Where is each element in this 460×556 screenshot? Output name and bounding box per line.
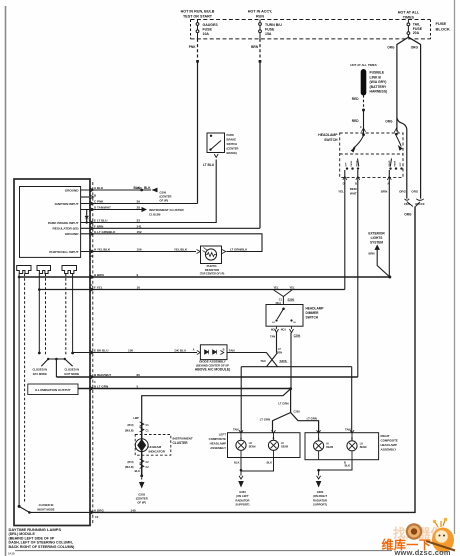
svg-text:INDICATOR: INDICATOR [149, 450, 166, 454]
svg-text:DAYTIME RUNNING LAMPS: DAYTIME RUNNING LAMPS [9, 527, 62, 532]
svg-text:BRACK: BRACK [415, 202, 424, 206]
svg-text:ILLUMINATION OUTPUT: ILLUMINATION OUTPUT [35, 388, 71, 392]
svg-text:TAN: TAN [233, 428, 239, 432]
svg-text:LT GRN/BLK: LT GRN/BLK [230, 248, 248, 252]
svg-text:LMP: LMP [133, 416, 139, 420]
svg-text:TAN: TAN [260, 359, 265, 363]
svg-text:BRAKE): BRAKE) [227, 151, 238, 155]
svg-text:RIGHT: RIGHT [381, 434, 390, 438]
svg-text:G200: G200 [160, 191, 167, 195]
svg-text:A BLK: A BLK [94, 186, 104, 190]
svg-text:HOT AT ALL TIMES: HOT AT ALL TIMES [350, 63, 376, 67]
svg-text:LT GRN: LT GRN [307, 417, 317, 421]
svg-text:ORG: ORG [385, 119, 393, 123]
svg-text:5: 5 [137, 385, 139, 389]
svg-text:B: B [355, 182, 357, 186]
svg-text:IGNITION INPUT: IGNITION INPUT [55, 202, 79, 206]
svg-text:BLK: BLK [345, 464, 350, 468]
svg-text:156: 156 [137, 248, 142, 252]
svg-text:INSTRUMENT: INSTRUMENT [173, 437, 193, 441]
svg-text:G LT GRN/BLK: G LT GRN/BLK [94, 230, 116, 234]
svg-text:PNK: PNK [189, 45, 196, 49]
svg-text:BLK: BLK [135, 469, 140, 473]
svg-text:C303: C303 [294, 410, 301, 414]
svg-text:G203: G203 [138, 493, 145, 497]
svg-text:TAN: TAN [345, 428, 351, 432]
svg-text:ASSEMBLY: ASSEMBLY [210, 446, 226, 450]
svg-text:CLOSED IN: CLOSED IN [32, 368, 47, 372]
svg-text:80: 80 [137, 373, 141, 377]
svg-text:TURN B/U: TURN B/U [265, 23, 282, 27]
svg-text:GRN: GRN [276, 350, 282, 354]
svg-text:GROUND: GROUND [65, 188, 80, 192]
svg-text:EXIT MODE: EXIT MODE [64, 372, 79, 376]
svg-text:C209: C209 [294, 333, 301, 337]
svg-text:C: C [360, 126, 362, 129]
svg-text:SUPPORT): SUPPORT) [313, 503, 327, 507]
svg-text:B LT GRN: B LT GRN [94, 385, 108, 389]
svg-text:REGULATOR (I/S): REGULATOR (I/S) [52, 227, 78, 231]
svg-text:RUN: RUN [256, 15, 264, 19]
svg-text:C2: C2 [146, 461, 150, 464]
svg-text:FUSE: FUSE [436, 21, 447, 26]
svg-text:BLK: BLK [234, 461, 239, 465]
svg-text:A: A [193, 348, 195, 351]
svg-text:BLOCK: BLOCK [436, 26, 450, 31]
svg-text:ORG: ORG [411, 46, 419, 50]
svg-text:G383: G383 [317, 490, 324, 494]
svg-text:(CENTER: (CENTER [136, 497, 148, 501]
svg-text:BEAM: BEAM [326, 446, 333, 449]
svg-text:EXTERIOR: EXTERIOR [368, 232, 385, 236]
svg-text:ORG: ORG [387, 46, 395, 50]
svg-text:SYSTEM: SYSTEM [370, 240, 383, 244]
svg-text:RADIATOR: RADIATOR [313, 498, 327, 502]
svg-text:GAUGES: GAUGES [203, 23, 219, 27]
svg-text:OFF: OFF [346, 162, 348, 167]
svg-text:6B: 6B [90, 254, 93, 258]
svg-text:SWITCH: SWITCH [324, 138, 338, 142]
svg-text:RADIATOR: RADIATOR [236, 498, 250, 502]
svg-text:HI: HI [281, 443, 284, 445]
svg-text:28: 28 [137, 206, 141, 210]
svg-text:G363: G363 [239, 490, 246, 494]
svg-text:B: B [223, 348, 225, 351]
svg-text:33: 33 [137, 219, 141, 223]
svg-text:(ON LEFT: (ON LEFT [236, 494, 249, 498]
svg-text:ABOVE A/C MODULE): ABOVE A/C MODULE) [195, 368, 230, 372]
svg-text:HEADLAMP: HEADLAMP [381, 443, 397, 447]
svg-text:B: B [273, 437, 275, 440]
svg-text:DIMMER: DIMMER [306, 311, 320, 315]
svg-text:LT GRN: LT GRN [278, 402, 288, 406]
svg-text:(TOP CENTER OF I/P): (TOP CENTER OF I/P) [200, 273, 225, 276]
svg-text:C1: C1 [146, 430, 150, 433]
svg-text:C1: C1 [146, 424, 150, 427]
svg-text:CLOSED IN: CLOSED IN [39, 503, 54, 507]
svg-text:GROUND: GROUND [65, 232, 80, 236]
svg-text:(B/U): (B/U) [128, 424, 134, 427]
svg-text:C620: C620 [404, 202, 411, 206]
svg-text:LO: LO [360, 444, 363, 446]
svg-text:LO: LO [249, 443, 252, 445]
svg-text:A: A [387, 182, 389, 186]
svg-text:H BRN: H BRN [94, 273, 104, 277]
svg-text:241: 241 [137, 224, 142, 228]
svg-text:(BATTERY: (BATTERY [370, 85, 388, 89]
svg-text:B: B [351, 438, 353, 441]
svg-text:RED: RED [352, 97, 359, 101]
svg-text:(ON RIGHT: (ON RIGHT [313, 494, 327, 498]
svg-text:HEADLAMP: HEADLAMP [210, 442, 226, 446]
svg-text:15A: 15A [265, 32, 272, 36]
svg-text:LO: LO [272, 322, 275, 324]
svg-text:RED: RED [352, 119, 359, 123]
svg-text:HI: HI [326, 444, 329, 446]
svg-text:LT BLU: LT BLU [203, 163, 215, 167]
svg-text:YEL/BLK: YEL/BLK [174, 248, 188, 252]
svg-text:140: 140 [131, 508, 136, 512]
svg-text:NCA: NCA [281, 329, 286, 332]
svg-text:OF I/P): OF I/P) [137, 501, 146, 505]
svg-text:YEL: YEL [290, 286, 295, 290]
svg-text:B: B [94, 193, 97, 197]
svg-text:HI: HI [294, 322, 297, 324]
svg-text:20A: 20A [413, 31, 420, 35]
svg-text:(CENTER: (CENTER [160, 195, 172, 199]
svg-text:TAN: TAN [270, 335, 275, 339]
svg-text:C PNK: C PNK [94, 200, 104, 204]
svg-text:FUSE: FUSE [203, 27, 213, 31]
svg-text:PARK: PARK [394, 160, 397, 166]
svg-text:OF I/P): OF I/P) [160, 199, 169, 203]
svg-text:ORG: ORG [411, 189, 419, 193]
svg-text:(BULB): (BULB) [125, 466, 134, 469]
svg-text:ASSEMBLY: ASSEMBLY [381, 447, 397, 451]
svg-text:OFF: OFF [400, 162, 402, 167]
svg-text:HOT IN RUN, BULB: HOT IN RUN, BULB [181, 10, 215, 14]
svg-text:F BRN: F BRN [94, 224, 103, 228]
svg-text:PARK BRAKE INPUT: PARK BRAKE INPUT [48, 221, 79, 225]
svg-text:www.dzsc.com: www.dzsc.com [394, 548, 451, 556]
svg-text:SUPPORT): SUPPORT) [236, 503, 250, 507]
svg-text:BEAM: BEAM [360, 446, 367, 449]
svg-text:BEAM: BEAM [281, 446, 288, 449]
svg-text:HOT AT ALL: HOT AT ALL [398, 11, 420, 15]
svg-text:INSTRUMENT CLUSTER: INSTRUMENT CLUSTER [149, 208, 184, 212]
svg-text:NCA: NCA [276, 302, 282, 305]
svg-text:A: A [318, 438, 320, 441]
svg-text:(W/A GRY): (W/A GRY) [370, 80, 387, 84]
svg-text:BLK: BLK [133, 186, 140, 190]
svg-text:BLK: BLK [144, 186, 151, 190]
svg-text:TAN: TAN [229, 348, 235, 352]
svg-text:LT GRN: LT GRN [260, 418, 270, 422]
svg-text:39: 39 [137, 200, 141, 204]
svg-text:LT: LT [278, 347, 281, 351]
svg-text:BLK: BLK [267, 461, 272, 465]
svg-text:HARNESS): HARNESS) [370, 90, 388, 94]
svg-text:(B/U): (B/U) [128, 461, 134, 464]
svg-text:YEL: YEL [273, 286, 278, 290]
svg-text:FUSE: FUSE [265, 27, 275, 31]
svg-text:NCA: NCA [271, 329, 276, 332]
svg-text:HEADLAMP: HEADLAMP [306, 307, 325, 311]
svg-text:WHT: WHT [350, 192, 357, 196]
svg-text:HI BEAM: HI BEAM [149, 445, 162, 449]
svg-text:BRN: BRN [368, 252, 374, 256]
svg-text:9: 9 [137, 273, 139, 277]
svg-text:S306: S306 [280, 359, 287, 363]
svg-text:F YEL: F YEL [94, 286, 103, 290]
svg-text:BRN: BRN [251, 45, 259, 49]
svg-text:BEAM: BEAM [249, 446, 256, 449]
svg-text:150: 150 [128, 349, 133, 353]
svg-text:BRN: BRN [381, 189, 388, 193]
svg-text:10A: 10A [203, 32, 210, 36]
svg-text:D TAN/WHT: D TAN/WHT [94, 206, 111, 210]
svg-text:PHOTOCELL INPUT: PHOTOCELL INPUT [49, 250, 78, 254]
svg-text:COMPOSITE: COMPOSITE [381, 439, 398, 443]
svg-text:G: G [91, 283, 93, 287]
svg-text:PARK: PARK [350, 160, 353, 166]
svg-text:ORG: ORG [399, 189, 407, 193]
svg-text:NIGHT MODE: NIGHT MODE [37, 508, 54, 512]
svg-text:COMPOSITE: COMPOSITE [209, 437, 226, 441]
svg-text:A: A [240, 437, 242, 440]
svg-text:RESISTOR: RESISTOR [205, 268, 219, 272]
svg-text:LINK B: LINK B [370, 75, 382, 79]
svg-text:(BULB): (BULB) [125, 430, 134, 433]
svg-text:HEADLAMP: HEADLAMP [318, 133, 338, 137]
svg-text:CLOSED IN: CLOSED IN [64, 368, 79, 372]
svg-text:HOT IN ACCY,: HOT IN ACCY, [248, 10, 272, 14]
svg-text:HEAD: HEAD [356, 160, 359, 166]
svg-text:LEFT: LEFT [219, 433, 226, 437]
svg-text:16: 16 [137, 286, 141, 290]
svg-text:BACK RIGHT OF STEERING COLUMN): BACK RIGHT OF STEERING COLUMN) [9, 545, 76, 549]
svg-text:TEST OR START: TEST OR START [183, 15, 213, 19]
svg-text:TIMES: TIMES [403, 15, 415, 19]
svg-text:H YEL/BLK: H YEL/BLK [94, 248, 111, 252]
svg-text:DK BLU: DK BLU [175, 349, 187, 353]
svg-text:FUSIBLE: FUSIBLE [370, 71, 385, 75]
svg-text:C: C [94, 380, 96, 384]
svg-text:HEAD: HEAD [388, 160, 391, 166]
svg-text:C1 B12M: C1 B12M [149, 213, 161, 217]
svg-text:SWITCH: SWITCH [227, 142, 238, 146]
svg-text:DAY MODE: DAY MODE [33, 372, 47, 376]
svg-text:RED/: RED/ [350, 187, 357, 191]
svg-text:C2: C2 [95, 515, 99, 519]
svg-text:C2: C2 [146, 466, 150, 469]
svg-text:S206: S206 [288, 297, 295, 301]
svg-text:SWITCH: SWITCH [306, 316, 319, 320]
svg-text:BRAKE: BRAKE [227, 138, 237, 142]
svg-text:YEL: YEL [338, 189, 344, 193]
svg-text:E LT BLU: E LT BLU [94, 219, 108, 223]
svg-text:A ORG: A ORG [94, 508, 105, 512]
svg-text:D: D [343, 182, 345, 186]
svg-text:152: 152 [137, 230, 142, 234]
svg-text:PARK: PARK [227, 133, 234, 137]
svg-text:CLUSTER: CLUSTER [173, 441, 189, 445]
svg-text:E DK BLU: E DK BLU [94, 349, 109, 353]
svg-text:5A1B: 5A1B [8, 551, 15, 555]
svg-text:B RED/WHT: B RED/WHT [94, 373, 111, 377]
svg-text:ORG: ORG [404, 213, 412, 217]
svg-text:(CENTER: (CENTER [227, 147, 239, 151]
